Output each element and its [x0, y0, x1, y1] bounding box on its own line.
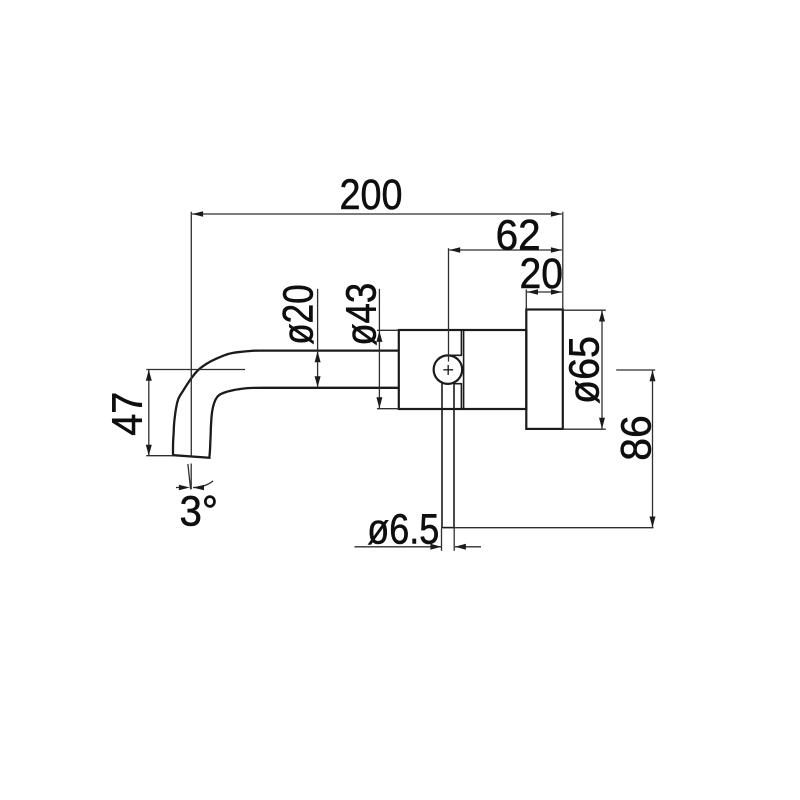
svg-text:200: 200: [340, 171, 403, 219]
angle wedge vertical line: [190, 464, 192, 490]
svg-text:47: 47: [103, 392, 151, 436]
cartridge ring line 1 upper segment: [460, 330, 462, 355]
extension line ball center: [448, 248, 450, 361]
dimension line diam43: [378, 289, 380, 409]
dimension line diam65: [601, 311, 603, 429]
wall flange rectangle: [526, 310, 563, 429]
extension line left (spout axis vertical): [190, 212, 192, 457]
extension line spout outlet bottom: [146, 455, 173, 457]
extension line flange bottom right: [564, 428, 606, 430]
svg-text:ø65: ø65: [561, 336, 609, 404]
dimension line 47: [148, 370, 150, 456]
dimension line 86: [652, 370, 654, 527]
cartridge bottom ledge: [454, 383, 462, 385]
ball joint circle: [434, 355, 463, 384]
dimension line diam20: [317, 289, 319, 387]
angle wedge slanted line: [188, 464, 191, 489]
angle arrow right with curved leader: [193, 481, 213, 488]
handle right line: [453, 383, 455, 527]
dimension line diam6.5 right: [455, 546, 481, 548]
spout outline: [173, 351, 399, 458]
extension line handle left: [441, 529, 443, 551]
ball cross horizontal: [443, 369, 453, 371]
extension line right (wall face): [562, 212, 564, 310]
svg-text:3°: 3°: [180, 488, 219, 536]
handle bottom line: [441, 527, 455, 529]
extension line flange front: [525, 290, 527, 310]
dimension line 62: [449, 249, 562, 251]
svg-text:86: 86: [613, 415, 661, 461]
dimension line diam6.5 left: [355, 546, 442, 548]
reference line handle bottom: [453, 527, 654, 529]
extension line body bottom left: [377, 408, 399, 410]
cartridge ring line 1 lower segment: [460, 384, 462, 409]
extension line spout axis horizontal: [146, 369, 245, 371]
svg-text:ø6.5: ø6.5: [367, 505, 439, 553]
body rectangle: [399, 330, 527, 409]
angle arrow left: [176, 487, 180, 489]
reference line axis right: [616, 369, 655, 371]
cartridge ring line 2: [463, 330, 465, 408]
svg-text:ø20: ø20: [275, 284, 323, 345]
handle left line: [441, 383, 443, 528]
extension line handle right: [453, 529, 455, 551]
cartridge top ledge: [450, 354, 463, 356]
extension line body top left: [377, 329, 399, 331]
ball cross vertical: [447, 365, 449, 375]
svg-text:ø43: ø43: [338, 283, 386, 346]
extension line flange top right: [564, 309, 606, 311]
dimension line 200: [192, 213, 562, 215]
dimension line 20: [527, 291, 562, 293]
svg-text:20: 20: [520, 250, 564, 298]
